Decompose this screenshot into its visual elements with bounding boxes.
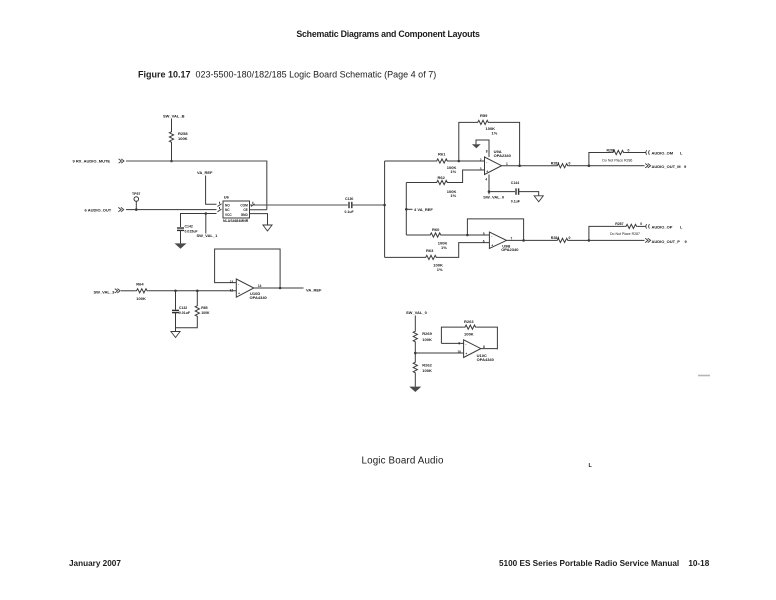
svg-text:R62: R62 bbox=[438, 175, 446, 180]
wire bbox=[196, 291, 198, 305]
svg-text:0.015uF: 0.015uF bbox=[185, 229, 199, 233]
svg-text:Figure 10.17 023-5500-180/182: Figure 10.17 023-5500-180/182/185 Logic … bbox=[138, 70, 436, 80]
svg-text:+: + bbox=[491, 243, 493, 247]
svg-text:C144: C144 bbox=[511, 181, 519, 185]
junction bbox=[488, 190, 491, 193]
wire bbox=[467, 219, 523, 241]
svg-text:-: - bbox=[486, 160, 487, 164]
wire bbox=[171, 119, 173, 131]
svg-text:AUDIO_OP: AUDIO_OP bbox=[652, 224, 673, 229]
svg-text:1%: 1% bbox=[441, 245, 447, 250]
wire bbox=[589, 153, 612, 166]
wire bbox=[148, 290, 236, 292]
wire bbox=[459, 122, 477, 161]
svg-text:OPA4340: OPA4340 bbox=[477, 357, 495, 362]
junction bbox=[522, 239, 525, 242]
resistor R262 bbox=[413, 361, 417, 374]
svg-text:Schematic Diagrams and Compone: Schematic Diagrams and Component Layouts bbox=[296, 29, 480, 39]
svg-text:NC: NC bbox=[225, 208, 230, 212]
wire bbox=[405, 183, 407, 236]
wire bbox=[625, 152, 646, 154]
node AUDIO_OUT_M bbox=[645, 164, 650, 168]
resistor R286 (do not place) bbox=[612, 150, 625, 154]
resistor R61 bbox=[436, 159, 449, 163]
svg-text:9: 9 bbox=[684, 164, 687, 169]
svg-text:0: 0 bbox=[569, 161, 571, 165]
wire output bbox=[507, 239, 557, 241]
svg-text:R287: R287 bbox=[615, 222, 623, 226]
svg-text:GND: GND bbox=[241, 213, 249, 217]
wire bbox=[488, 175, 490, 192]
capacitor C142 bbox=[177, 227, 184, 229]
svg-text:R286: R286 bbox=[607, 148, 615, 152]
svg-text:CE: CE bbox=[243, 208, 247, 212]
svg-text:R283: R283 bbox=[551, 161, 559, 165]
node VA_REF tap pin 4 bbox=[406, 208, 412, 210]
svg-text:R61: R61 bbox=[438, 151, 446, 156]
svg-text:1%: 1% bbox=[437, 267, 443, 272]
junction bbox=[383, 204, 386, 207]
junction bbox=[170, 160, 173, 163]
svg-text:8: 8 bbox=[486, 150, 488, 154]
svg-text:R63: R63 bbox=[426, 248, 434, 253]
ground bbox=[175, 243, 187, 248]
wire bbox=[490, 122, 520, 165]
resistor R59 bbox=[477, 120, 490, 124]
svg-text:NO: NO bbox=[225, 203, 230, 207]
node AUDIO_OM bbox=[646, 150, 650, 154]
stray faint dash right margin bbox=[698, 375, 710, 377]
svg-text:R65: R65 bbox=[201, 306, 207, 310]
svg-text:7: 7 bbox=[511, 236, 513, 240]
power arrow bbox=[472, 144, 481, 148]
svg-text:1%: 1% bbox=[492, 130, 498, 135]
svg-text:OPA2340: OPA2340 bbox=[501, 247, 519, 252]
svg-text:5100 ES Series Portable Radio: 5100 ES Series Portable Radio Service Ma… bbox=[499, 559, 710, 568]
svg-text:+: + bbox=[465, 352, 467, 356]
wire bbox=[406, 182, 435, 184]
svg-text:R262: R262 bbox=[422, 362, 432, 367]
wire bbox=[176, 318, 198, 332]
resistor R64 bbox=[135, 289, 148, 293]
svg-text:-: - bbox=[238, 282, 239, 286]
svg-text:R59: R59 bbox=[480, 113, 488, 118]
svg-text:-: - bbox=[465, 343, 466, 347]
junction bbox=[135, 208, 138, 211]
svg-text:1%: 1% bbox=[450, 169, 456, 174]
wire COM output bbox=[250, 204, 348, 206]
svg-text:AUDIO_OUT_M: AUDIO_OUT_M bbox=[652, 164, 682, 169]
wire bbox=[519, 192, 539, 196]
svg-text:5: 5 bbox=[483, 232, 485, 236]
IC U6 body bbox=[223, 201, 250, 218]
svg-text:TP57: TP57 bbox=[132, 192, 140, 196]
svg-text:6 AUDIO_OUT: 6 AUDIO_OUT bbox=[85, 208, 112, 213]
node AUDIO_OUT_P bbox=[645, 238, 650, 242]
op-amp U10D bbox=[236, 279, 254, 297]
svg-text:COM: COM bbox=[240, 203, 248, 207]
resistor R65 bbox=[195, 305, 199, 318]
svg-text:R269: R269 bbox=[422, 331, 432, 336]
wire bbox=[414, 374, 416, 387]
wire bbox=[175, 291, 177, 310]
resistor R263 bbox=[464, 325, 477, 329]
svg-text:Logic Board Audio: Logic Board Audio bbox=[362, 455, 444, 466]
junction bbox=[174, 290, 177, 293]
svg-text:SW_VAL_1: SW_VAL_1 bbox=[197, 233, 219, 238]
svg-text:100K: 100K bbox=[464, 331, 474, 336]
svg-text:9: 9 bbox=[685, 239, 688, 244]
svg-text:R64: R64 bbox=[136, 282, 144, 287]
svg-text:0: 0 bbox=[640, 222, 642, 226]
svg-text:C142: C142 bbox=[185, 224, 193, 228]
resistor R283 bbox=[556, 164, 569, 168]
wire GND stub bbox=[250, 214, 268, 225]
junction bbox=[205, 212, 208, 215]
junction bbox=[518, 164, 521, 167]
resistor R63 bbox=[425, 255, 438, 259]
svg-text:SW_VAL_3: SW_VAL_3 bbox=[94, 290, 116, 295]
pin COM switch mark bbox=[251, 202, 255, 207]
svg-text:100K: 100K bbox=[422, 337, 432, 342]
wire bbox=[638, 225, 646, 227]
svg-text:0.1uF: 0.1uF bbox=[345, 210, 355, 214]
junction bbox=[458, 160, 461, 163]
junction bbox=[196, 290, 199, 293]
junction bbox=[279, 287, 282, 290]
junction bbox=[466, 234, 469, 237]
wire bbox=[589, 226, 625, 240]
svg-text:L: L bbox=[589, 463, 593, 469]
wire bbox=[206, 176, 217, 205]
svg-text:12: 12 bbox=[230, 289, 234, 293]
resistor R62 bbox=[436, 180, 449, 184]
wire bbox=[121, 290, 135, 292]
svg-text:R263: R263 bbox=[464, 319, 474, 324]
resistor R284 bbox=[556, 238, 569, 242]
feedback loop with R263 bbox=[441, 327, 463, 343]
resistor R269 bbox=[413, 330, 417, 343]
wire bbox=[406, 234, 429, 236]
resistor R258 bbox=[169, 131, 173, 144]
svg-text:0.01uF: 0.01uF bbox=[179, 311, 191, 315]
ground bbox=[409, 387, 421, 392]
svg-text:9: 9 bbox=[458, 341, 460, 345]
svg-text:4 VA_REF: 4 VA_REF bbox=[414, 207, 433, 212]
wire bbox=[414, 343, 416, 361]
svg-text:SW_VAL_B: SW_VAL_B bbox=[163, 113, 185, 118]
svg-text:3: 3 bbox=[480, 167, 482, 171]
wire bbox=[385, 256, 425, 258]
svg-text:1%: 1% bbox=[450, 193, 456, 198]
svg-text:0: 0 bbox=[569, 236, 571, 240]
svg-text:SW_VAL_0: SW_VAL_0 bbox=[406, 310, 428, 315]
wire bbox=[126, 161, 267, 210]
svg-text:Do Not Place R286: Do Not Place R286 bbox=[602, 158, 632, 162]
feedback wire bbox=[215, 249, 281, 288]
svg-text:C130: C130 bbox=[345, 197, 353, 201]
op-amp U10C bbox=[464, 340, 481, 358]
svg-text:NLAS4684MNR: NLAS4684MNR bbox=[223, 219, 249, 223]
svg-text:L: L bbox=[680, 150, 683, 155]
svg-text:10: 10 bbox=[457, 350, 461, 354]
wire to - input bbox=[441, 342, 463, 344]
svg-text:14: 14 bbox=[258, 284, 262, 288]
wire bbox=[442, 234, 489, 236]
wire to + input bbox=[415, 352, 463, 354]
wire down to R63 path bbox=[384, 205, 386, 257]
svg-text:9 RX_AUDIO_MUTE: 9 RX_AUDIO_MUTE bbox=[73, 159, 111, 164]
svg-text:+: + bbox=[238, 291, 240, 295]
wire bbox=[477, 327, 498, 349]
svg-text:+: + bbox=[486, 169, 488, 173]
wire bbox=[180, 230, 182, 243]
svg-text:AUDIO_OUT_P: AUDIO_OUT_P bbox=[652, 239, 681, 244]
capacitor C132 bbox=[172, 309, 179, 311]
wire CE stub bbox=[250, 209, 267, 211]
svg-text:R284: R284 bbox=[551, 236, 559, 240]
svg-text:L: L bbox=[680, 224, 683, 229]
node AUDIO_OP bbox=[646, 224, 650, 228]
ground bbox=[171, 332, 180, 338]
svg-text:U6: U6 bbox=[224, 195, 230, 200]
resistor R287 (do not place) bbox=[625, 224, 638, 228]
junction bbox=[588, 239, 591, 242]
svg-text:VA_REF: VA_REF bbox=[197, 170, 213, 175]
node SW_VAL_0 bbox=[488, 192, 490, 195]
wire bbox=[175, 313, 177, 328]
wire output bbox=[481, 348, 498, 350]
pin NO switch mark bbox=[218, 202, 222, 207]
wire bbox=[126, 209, 217, 211]
svg-text:6: 6 bbox=[483, 239, 485, 243]
junction bbox=[414, 352, 417, 355]
wire bbox=[438, 243, 490, 258]
wire bbox=[449, 160, 485, 162]
wire bbox=[171, 144, 173, 162]
ground bbox=[263, 225, 272, 231]
resistor R60 bbox=[429, 233, 442, 237]
ground bbox=[534, 196, 543, 202]
wire bbox=[181, 214, 217, 228]
wire bbox=[414, 316, 416, 331]
svg-text:R60: R60 bbox=[432, 227, 440, 232]
wire bbox=[449, 170, 485, 183]
svg-text:January 2007: January 2007 bbox=[69, 559, 121, 568]
wire bbox=[569, 239, 645, 241]
junction bbox=[405, 208, 408, 211]
svg-text:SW_VAL_0: SW_VAL_0 bbox=[483, 195, 505, 200]
svg-text:0.1uF: 0.1uF bbox=[511, 199, 521, 203]
wire output bbox=[254, 287, 304, 289]
svg-text:100K: 100K bbox=[178, 136, 188, 141]
svg-text:OPA2340: OPA2340 bbox=[494, 153, 512, 158]
svg-text:2: 2 bbox=[480, 158, 482, 162]
svg-text:Do Not Place R287: Do Not Place R287 bbox=[610, 232, 640, 236]
svg-text:OPA4340: OPA4340 bbox=[250, 295, 268, 300]
pin NC switch mark bbox=[218, 207, 222, 212]
wire bbox=[385, 160, 436, 162]
junction bbox=[588, 164, 591, 167]
wire bbox=[352, 204, 385, 206]
svg-text:VA_REF: VA_REF bbox=[306, 287, 322, 292]
svg-text:VCC: VCC bbox=[225, 213, 232, 217]
wire up to inverting path bbox=[384, 161, 386, 205]
svg-text:AUDIO_OM: AUDIO_OM bbox=[652, 150, 674, 155]
wire bbox=[205, 214, 207, 234]
svg-text:13: 13 bbox=[230, 280, 234, 284]
wire bbox=[489, 191, 515, 193]
svg-text:100K: 100K bbox=[136, 296, 146, 301]
svg-text:-: - bbox=[491, 235, 492, 239]
svg-text:4: 4 bbox=[485, 177, 487, 181]
wire bbox=[476, 140, 489, 157]
capacitor C144 bbox=[515, 188, 517, 194]
svg-text:100K: 100K bbox=[201, 311, 210, 315]
svg-text:C132: C132 bbox=[179, 306, 187, 310]
svg-text:100K: 100K bbox=[422, 368, 432, 373]
wire bbox=[569, 165, 645, 167]
wire output bbox=[502, 165, 557, 167]
capacitor C130 bbox=[348, 202, 350, 208]
